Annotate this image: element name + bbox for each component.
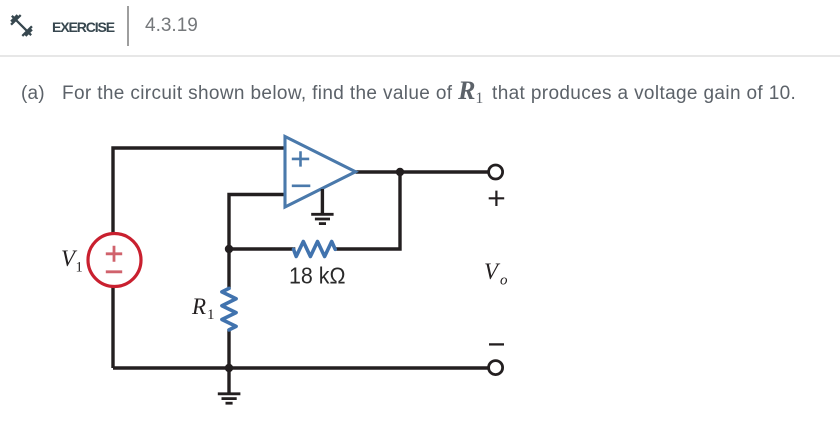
header divider	[127, 6, 129, 46]
header label EXERCISE	[52, 19, 114, 35]
exercise number 4.3.19	[145, 15, 198, 37]
ground under op-amp	[311, 189, 333, 224]
wire R1 to bottom rail	[227, 330, 230, 368]
exercise icon (dumbbell)	[8, 12, 35, 39]
svg-text:o: o	[500, 273, 508, 289]
svg-text:1: 1	[76, 260, 83, 276]
problem statement	[21, 83, 45, 105]
wire left rail below V1	[111, 287, 114, 369]
resistor 18k (feedback)	[294, 242, 336, 257]
voltage source V1	[88, 234, 141, 287]
wire top rail V1 to op-amp + input	[113, 148, 285, 234]
terminal + (output top)	[489, 165, 503, 179]
wire bottom rail	[113, 366, 489, 369]
wire feedback node to 18k resistor	[229, 247, 295, 250]
wire op-amp output to + terminal	[356, 170, 490, 173]
resistor R1	[222, 288, 236, 330]
label - at output	[489, 343, 504, 345]
wire bottom ground stub	[227, 368, 230, 393]
ground at bottom	[218, 394, 241, 403]
svg-text:18 kΩ: 18 kΩ	[289, 263, 346, 289]
node B: output junction	[396, 168, 404, 176]
terminal - (output bottom)	[489, 361, 503, 375]
svg-text:1: 1	[207, 307, 215, 323]
wire feedback node down to R1	[227, 249, 230, 288]
node C: bottom rail junction	[225, 364, 233, 372]
svg-text:V: V	[484, 259, 501, 284]
horizontal rule	[0, 55, 840, 57]
wire 18k resistor to output branch	[335, 172, 400, 249]
node A: feedback/inverting input junction	[225, 245, 233, 253]
label + at output	[489, 191, 505, 206]
wire op-amp - input to feedback node	[229, 195, 285, 250]
svg-text:R: R	[191, 294, 206, 319]
op-amp U1	[285, 137, 356, 208]
